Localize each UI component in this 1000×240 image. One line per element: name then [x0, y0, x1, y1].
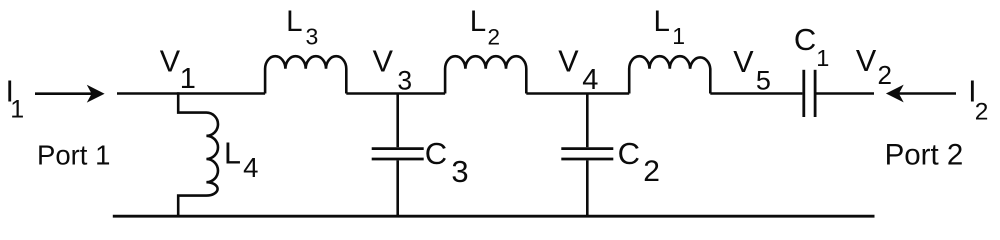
svg-text:4: 4 — [582, 64, 598, 96]
capacitor C2 branch wire bottom — [586, 160, 589, 216]
wire V3 segment — [346, 92, 445, 95]
capacitor C3 branch wire bottom — [396, 160, 399, 216]
svg-text:V: V — [856, 44, 877, 78]
svg-text:5: 5 — [756, 66, 771, 96]
svg-text:Port 2: Port 2 — [885, 138, 964, 171]
svg-text:L: L — [286, 5, 302, 38]
svg-text:1: 1 — [180, 63, 196, 95]
svg-text:1: 1 — [816, 45, 829, 71]
capacitor C3 plates — [372, 149, 424, 159]
svg-text:C: C — [794, 22, 816, 57]
wire V4 segment — [526, 92, 629, 95]
current arrow I2 — [897, 92, 956, 95]
svg-text:1: 1 — [10, 96, 24, 124]
svg-text:V: V — [733, 45, 754, 79]
inductor L2 — [445, 56, 526, 93]
svg-text:2: 2 — [975, 98, 989, 125]
svg-text:L: L — [470, 5, 486, 38]
svg-text:3: 3 — [451, 154, 468, 189]
svg-text:2: 2 — [643, 155, 660, 188]
inductor L4 — [178, 92, 218, 216]
capacitor C2 plates — [561, 149, 613, 159]
svg-text:1: 1 — [672, 23, 685, 49]
capacitor C1 — [804, 70, 815, 117]
wire top left segment (input to L3) — [117, 92, 265, 95]
inductor L1 — [629, 56, 710, 93]
svg-text:3: 3 — [306, 24, 319, 50]
svg-text:V: V — [160, 45, 181, 79]
wire V2 segment — [817, 92, 875, 95]
current arrow I1 — [35, 92, 94, 95]
svg-text:V: V — [373, 45, 394, 79]
wire V5 segment — [710, 92, 802, 95]
svg-text:C: C — [425, 136, 447, 171]
bottom rail — [113, 215, 875, 218]
inductor L3 — [265, 56, 346, 93]
svg-text:2: 2 — [878, 60, 892, 90]
svg-text:4: 4 — [243, 152, 258, 183]
svg-text:L: L — [654, 5, 670, 38]
svg-text:3: 3 — [397, 66, 412, 96]
svg-text:V: V — [558, 45, 579, 79]
svg-text:C: C — [618, 136, 640, 171]
capacitor C2 branch wire top — [586, 94, 589, 148]
svg-text:Port 1: Port 1 — [37, 139, 110, 170]
capacitor C3 branch wire top — [396, 94, 399, 148]
svg-text:L: L — [224, 136, 241, 170]
svg-text:2: 2 — [488, 24, 501, 49]
